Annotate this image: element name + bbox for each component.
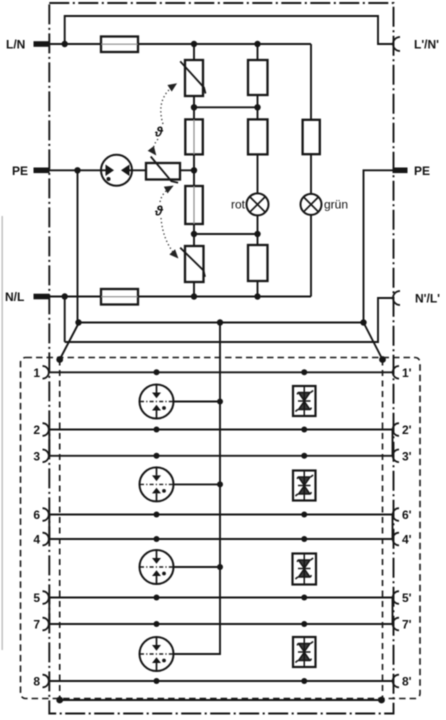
wire GDT2 center electrode (174, 483, 221, 485)
terminal hook 8 (43, 675, 49, 688)
terminal N/L (34, 294, 50, 300)
gas discharge tube G4 (140, 637, 174, 671)
svg-text:5: 5 (33, 591, 40, 605)
thermal arrow theta2 to RV3 (160, 186, 173, 202)
wire row 5 (49, 597, 393, 599)
svg-text:grün: grün (324, 198, 348, 212)
wire GDT1 center electrode (174, 401, 221, 403)
svg-text:L'/N': L'/N' (414, 38, 439, 52)
fuse/disconnector col1 lower (185, 186, 203, 224)
terminal hook 7' (393, 618, 399, 631)
wire row 3 (49, 455, 393, 457)
lower terminal number labels (33, 366, 411, 689)
wire PE right terminal link (364, 170, 394, 322)
terminal PE left (34, 168, 50, 174)
suppressor diode D2 (293, 471, 316, 501)
PE dashed vertical left (59, 360, 61, 701)
wire PE diagonal right (364, 324, 383, 360)
gas discharge tube G2 (140, 467, 174, 501)
terminal hook 1' (393, 366, 399, 379)
svg-text:3': 3' (402, 449, 412, 463)
wire PE drop left (77, 170, 79, 322)
gas discharge tube G1 (140, 385, 174, 419)
terminal hook 6' (393, 508, 399, 521)
thermal arrow theta1 to RV1 (161, 84, 176, 124)
wire N/L bus to N'/L' (65, 298, 393, 342)
fuse F2 (N/L) (101, 289, 138, 305)
terminal hook 3 (43, 450, 49, 463)
wire row 8 (49, 680, 393, 682)
gas discharge tube upper (PE) (101, 155, 132, 186)
wire L/N bypass to L'/N' (65, 16, 393, 44)
svg-text:1: 1 (33, 366, 40, 380)
svg-text:N'/L': N'/L' (415, 292, 440, 306)
wire link col1-col2 upper (194, 106, 258, 108)
svg-text:4: 4 (33, 533, 40, 547)
svg-text:2': 2' (402, 423, 412, 437)
wire column3 vertical (310, 44, 312, 297)
wire row 2 (49, 429, 393, 431)
scan artifact line left edge (1, 216, 3, 650)
gas discharge tubes lower (140, 385, 174, 672)
wire terminal link 6-4 left (48, 515, 50, 540)
wire terminal link 5-7 left (48, 598, 50, 625)
wire N/L drop left (64, 297, 66, 343)
terminal hook 2' (393, 423, 399, 436)
terminal hook 4' (393, 533, 399, 546)
svg-text:5': 5' (402, 591, 412, 605)
terminal bars (34, 41, 408, 299)
svg-text:PE: PE (414, 164, 430, 178)
terminal hook 5' (393, 591, 399, 604)
wire terminal link 5'-7' right (392, 598, 394, 625)
suppressor diode D3 (293, 554, 317, 585)
wire row 1 (49, 371, 393, 373)
svg-text:4': 4' (402, 533, 412, 547)
thermal arrow theta2 to RV2 (161, 218, 178, 258)
resistor col2 bottom (248, 245, 268, 281)
suppressor diode D1 (293, 386, 316, 416)
terminal hook 8' (393, 675, 399, 688)
lower terminal hooks left (43, 366, 49, 687)
terminal hook N'/L' (393, 291, 400, 305)
lower unit dashed enclosure (21, 358, 421, 699)
terminal hook 5 (43, 591, 49, 604)
components layer (101, 37, 322, 305)
resistor col2 top (248, 60, 268, 95)
wire PE row left (49, 169, 194, 171)
wire row 7 (49, 623, 393, 625)
terminal hook L'/N' (393, 37, 400, 51)
wire row 4 (49, 538, 393, 540)
terminal hook 6 (43, 508, 49, 521)
wire PE center drop (174, 323, 221, 655)
wire link col1-col2 lower (194, 233, 258, 235)
svg-text:rot: rot (231, 198, 246, 212)
fuse F1 (L/N) (101, 37, 138, 53)
svg-text:7: 7 (33, 618, 40, 632)
terminal PE right (393, 168, 408, 174)
wire terminal link 6'-4' right (392, 515, 394, 540)
resistor col2 mid (248, 119, 268, 154)
svg-text:ϑ: ϑ (154, 204, 164, 219)
gas discharge tube G3 (140, 550, 174, 584)
wire L/N row (49, 43, 311, 45)
thermal disconnect dotted arrows (154, 84, 178, 258)
wire row 6 (49, 514, 393, 516)
lamp gruen (301, 194, 322, 215)
varistor RV2 (col1 bottom) (180, 246, 205, 282)
lamp rot (247, 193, 269, 215)
svg-text:L/N: L/N (6, 38, 25, 52)
wire terminal link 2-3 left (48, 430, 50, 456)
enclosure border (dash-dot) (49, 3, 393, 714)
suppressor diodes (293, 386, 317, 667)
svg-text:6: 6 (33, 508, 40, 522)
svg-text:8: 8 (33, 675, 40, 689)
terminal hook 7 (43, 618, 49, 631)
wire GDT3 center electrode (174, 566, 221, 568)
terminal hook 4 (43, 533, 49, 546)
svg-text:6': 6' (402, 508, 412, 522)
terminal hook 2 (43, 423, 49, 436)
terminal hook 1 (43, 366, 49, 379)
wire PE bus (78, 322, 364, 324)
wire PE diagonal left (60, 324, 79, 360)
svg-text:1': 1' (402, 366, 412, 380)
wire PE bottom bus (60, 699, 382, 701)
svg-text:3: 3 (33, 449, 40, 463)
svg-text:7': 7' (402, 618, 412, 632)
wire terminal link 2'-3' right (392, 430, 394, 456)
terminal hooks upper right (393, 37, 400, 305)
wire N/L row (49, 296, 311, 298)
svg-text:PE: PE (12, 164, 28, 178)
varistor RV3 (PE row horizontal) (146, 157, 180, 183)
wire column2 vertical (257, 44, 259, 297)
terminal L/N (34, 41, 50, 47)
thermal arrow theta1 to RV3 (154, 139, 159, 155)
PE dashed vertical right (382, 360, 384, 701)
resistor col3 (303, 120, 320, 154)
varistor RV1 (col1 top) (180, 60, 205, 96)
svg-text:ϑ: ϑ (154, 125, 164, 140)
wire column1 vertical (193, 44, 195, 297)
suppressor diode D4 (293, 637, 316, 667)
terminal hook 3' (393, 450, 399, 463)
lower terminal hooks right (393, 366, 399, 687)
svg-text:2: 2 (33, 423, 40, 437)
svg-text:N/L: N/L (5, 290, 24, 304)
fuse/disconnector col1 upper (185, 119, 203, 154)
svg-text:8': 8' (402, 675, 412, 689)
